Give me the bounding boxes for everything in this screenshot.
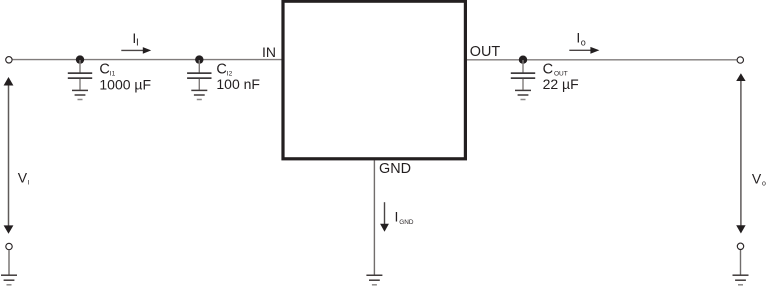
current arrow II	[121, 47, 151, 54]
wire left ground stub	[8, 250, 10, 275]
regulator box U1	[283, 1, 465, 159]
ground of COUT	[515, 90, 531, 99]
wire input rail	[13, 59, 282, 61]
label VO	[752, 170, 766, 187]
wire output rail	[467, 59, 737, 61]
svg-text:I: I	[395, 208, 399, 224]
node at C_OUT	[519, 56, 527, 64]
svg-text:OUT: OUT	[470, 44, 501, 60]
svg-text:100 nF: 100 nF	[216, 76, 260, 92]
ground center bottom	[366, 275, 382, 285]
svg-text:1000 µF: 1000 µF	[99, 76, 151, 92]
capacitor COUT	[511, 60, 535, 90]
wire right ground stub	[740, 250, 742, 275]
label CI2	[216, 62, 260, 93]
svg-text:C: C	[543, 62, 553, 78]
node at C_I2	[195, 55, 203, 63]
label CI1	[99, 62, 151, 93]
terminal output top	[737, 57, 743, 63]
svg-text:I: I	[28, 180, 30, 187]
label IGND	[395, 208, 414, 226]
svg-text:IN: IN	[262, 44, 276, 60]
voltage arrow VI	[4, 77, 14, 234]
wire GND pin lead	[373, 160, 375, 274]
svg-text:22 µF: 22 µF	[543, 76, 579, 92]
ground right bottom	[733, 275, 749, 285]
svg-text:C: C	[216, 62, 226, 78]
svg-text:V: V	[18, 170, 28, 186]
current arrow IO	[569, 47, 599, 54]
svg-text:V: V	[752, 170, 762, 186]
capacitor CI1	[68, 60, 92, 90]
terminal input top	[6, 57, 12, 63]
terminal input bottom	[6, 243, 12, 249]
svg-text:I: I	[136, 38, 139, 49]
svg-text:GND: GND	[379, 161, 411, 177]
svg-text:o: o	[581, 37, 586, 47]
svg-text:C: C	[99, 62, 109, 78]
current arrow IGND	[380, 202, 389, 232]
ground left bottom	[1, 275, 17, 285]
label VI	[18, 170, 30, 187]
voltage arrow VO	[736, 73, 745, 233]
label II	[132, 30, 138, 49]
node at C_I1	[76, 55, 84, 63]
label COUT	[543, 62, 579, 93]
svg-text:o: o	[762, 181, 766, 188]
terminal output bottom	[737, 243, 743, 249]
ground of CI1	[72, 90, 88, 99]
svg-text:GND: GND	[399, 219, 414, 226]
label IO	[576, 29, 585, 47]
ground of CI2	[191, 90, 207, 99]
capacitor CI2	[187, 60, 211, 90]
